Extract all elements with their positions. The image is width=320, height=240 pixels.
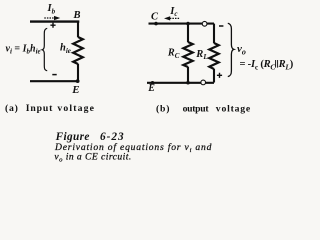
output terminal bottom (open circle): [201, 80, 206, 85]
current I_c dashed arrow: [170, 17, 179, 19]
resistor h_ie (zigzag): [73, 37, 83, 64]
svg-text:B: B: [73, 10, 81, 21]
junction dot top of R_C: [186, 22, 190, 26]
wire: right vertical lower segment: [77, 64, 79, 81]
junction dot near E: [151, 81, 155, 85]
junction dot bottom of R_C: [186, 81, 190, 85]
brace for v_o: [228, 23, 234, 76]
svg-text:(a)Inputvoltage: (a)Inputvoltage: [5, 103, 95, 114]
wire: R_C branch upper: [187, 24, 189, 43]
wire: top horizontal to B: [30, 20, 79, 22]
parallel bars of (R_C || R_L): [276, 60, 278, 68]
polarity - (input): [52, 74, 56, 76]
svg-text:E: E: [147, 83, 155, 94]
resistor R_C (zigzag): [183, 42, 192, 67]
corner dot at E: [76, 79, 80, 83]
current I_b dashed arrow: [44, 17, 54, 19]
svg-text:C: C: [151, 11, 159, 22]
wire: right vertical upper segment: [77, 22, 79, 38]
output terminal top (open circle): [202, 21, 207, 26]
junction dot near C: [154, 22, 158, 26]
polarity + (input): [50, 23, 55, 28]
wire: right vertical upper (to R_L): [213, 24, 215, 44]
wire: bottom horizontal to E: [147, 82, 214, 84]
brace for v_i: [42, 28, 47, 71]
resistor R_L (zigzag): [209, 43, 218, 69]
paper background: [0, 0, 300, 175]
svg-text:E: E: [71, 84, 79, 96]
wire: right vertical lower: [213, 69, 215, 83]
polarity - (output): [219, 25, 223, 27]
wire: R_C branch lower: [187, 67, 189, 83]
polarity + (output): [217, 73, 222, 78]
svg-text:vo in a CE circuit.: vo in a CE circuit.: [54, 152, 131, 164]
wire: bottom horizontal to E: [30, 80, 79, 82]
wire: top horizontal from C: [149, 23, 215, 25]
